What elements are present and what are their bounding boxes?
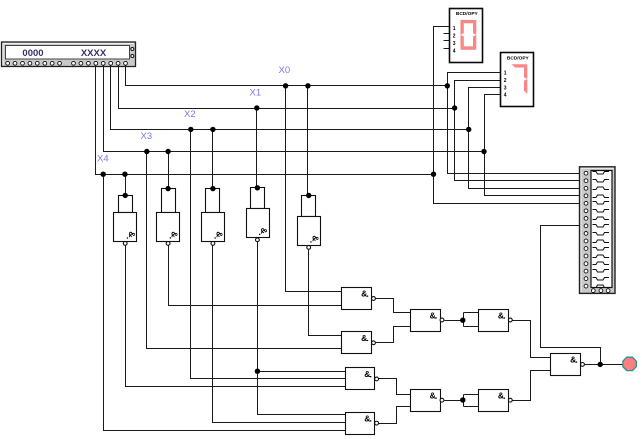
svg-text:1: 1 (504, 71, 507, 77)
svg-text:&: & (498, 391, 504, 401)
svg-text:X1: X1 (250, 87, 262, 98)
svg-text:&: & (170, 231, 180, 237)
svg-text:&: & (498, 310, 504, 320)
svg-text:4: 4 (504, 93, 507, 99)
svg-text:&: & (364, 369, 370, 379)
svg-text:&: & (361, 333, 367, 343)
svg-text:&: & (127, 231, 137, 237)
svg-text:&: & (214, 231, 224, 237)
svg-text:&: & (430, 391, 436, 401)
svg-text:&: & (430, 310, 436, 320)
svg-text:&: & (259, 228, 269, 234)
svg-text:2: 2 (453, 34, 456, 40)
svg-text:3: 3 (453, 41, 456, 47)
svg-text:BCD/OPY: BCD/OPY (456, 11, 479, 17)
svg-text:BCD/OPY: BCD/OPY (507, 55, 530, 61)
svg-text:2: 2 (504, 78, 507, 84)
svg-text:X0: X0 (279, 65, 291, 76)
svg-text:&: & (361, 289, 367, 299)
svg-text:XXXX: XXXX (81, 48, 107, 59)
svg-text:0000: 0000 (22, 48, 43, 59)
svg-text:&: & (364, 413, 370, 423)
svg-text:4: 4 (453, 48, 456, 54)
svg-text:X3: X3 (141, 131, 153, 142)
svg-text:X2: X2 (184, 109, 196, 120)
svg-text:1: 1 (453, 26, 456, 32)
svg-text:X4: X4 (97, 153, 109, 164)
svg-text:&: & (310, 235, 320, 241)
svg-text:3: 3 (504, 85, 507, 91)
svg-text:&: & (570, 355, 576, 365)
